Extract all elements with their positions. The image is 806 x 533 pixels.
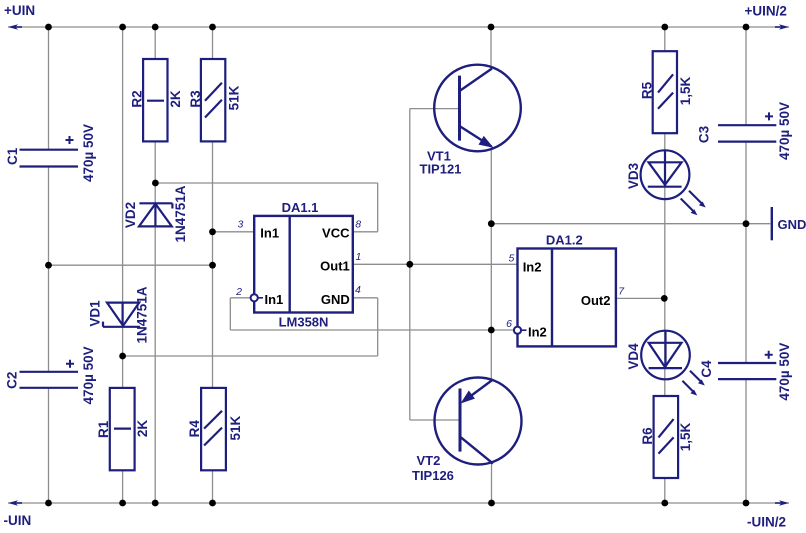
wire VT1 collector stub (490, 27, 492, 67)
junction top rail R5 (661, 24, 668, 31)
svg-text:1,5K: 1,5K (678, 76, 693, 105)
svg-text:+UIN/2: +UIN/2 (745, 4, 787, 19)
junction emitters GND wire (488, 220, 495, 227)
svg-text:470µ 50V: 470µ 50V (777, 343, 792, 401)
svg-text:R5: R5 (640, 81, 655, 99)
wire VT1 base (410, 108, 460, 110)
wire VD1/R1 column (122, 27, 124, 503)
junction bottom rail VT2 collector (488, 500, 495, 507)
svg-text:TIP121: TIP121 (420, 161, 462, 176)
svg-text:VD2: VD2 (123, 202, 138, 228)
svg-text:C1: C1 (5, 147, 20, 165)
svg-text:2K: 2K (168, 90, 183, 108)
svg-text:R3: R3 (188, 90, 203, 108)
svg-text:DA1.1: DA1.1 (282, 200, 319, 215)
junction Out1 bases (406, 261, 413, 268)
svg-text:4: 4 (355, 284, 361, 296)
op-amp DA1.1 (251, 200, 353, 330)
svg-text:470µ 50V: 470µ 50V (777, 102, 792, 160)
pin number 6 (506, 318, 512, 330)
wire VD2 node to VCC horizontal (155, 182, 378, 184)
svg-text:+UIN: +UIN (4, 3, 35, 18)
wire GND pin4 to VD1 node (123, 355, 378, 357)
wire In1 inverting drop (229, 298, 231, 330)
svg-text:LM358N: LM358N (279, 315, 329, 330)
wire emitters column (490, 150, 492, 379)
wire pin3 stub (213, 231, 255, 233)
transistor VT1 (420, 65, 521, 177)
svg-text:6: 6 (506, 318, 512, 330)
pin number 4 (355, 284, 361, 296)
svg-text:-UIN: -UIN (4, 513, 32, 528)
svg-text:51K: 51K (228, 415, 243, 440)
pin number 1 (356, 251, 362, 263)
svg-text:5: 5 (508, 253, 514, 265)
wire R3/R4 column (212, 27, 214, 503)
junction top rail right column (743, 24, 750, 31)
node -UIN label (4, 513, 32, 528)
svg-text:1: 1 (356, 251, 362, 263)
resistor R6 (640, 396, 693, 478)
pin number 7 (618, 285, 625, 297)
wire feedback to In2 pin6 (230, 329, 514, 331)
node +UIN label (4, 3, 35, 18)
junction C1 C2 midpoint (45, 262, 52, 269)
LED VD4 (626, 331, 705, 396)
terminal arrow -UIN/2 (775, 500, 789, 505)
junction bottom rail R1 (119, 500, 126, 507)
svg-text:In1: In1 (265, 292, 284, 307)
junction bottom rail VD2 anode (152, 500, 159, 507)
svg-text:1,5K: 1,5K (678, 422, 693, 451)
junction top rail C1 (45, 24, 52, 31)
wire GND pin4 stub (353, 297, 378, 299)
wire right column above C3 (745, 27, 747, 125)
zener diode VD1 (88, 286, 150, 343)
junction bottom rail R6 (661, 500, 668, 507)
capacitor C3 (697, 102, 793, 160)
svg-text:R4: R4 (187, 420, 202, 438)
svg-text:VD4: VD4 (626, 343, 641, 370)
wire left column below C2 (48, 388, 50, 503)
junction pin3 node (209, 228, 216, 235)
svg-text:470µ 50V: 470µ 50V (81, 124, 96, 182)
junction top rail R2 (152, 24, 159, 31)
wire GND output horizontal (491, 223, 770, 225)
terminal arrow +UIN (8, 24, 22, 29)
svg-text:8: 8 (355, 218, 361, 230)
junction top rail VD1 (119, 24, 126, 31)
wire right column below C4 (745, 379, 747, 503)
wire VT2 collector stub (491, 463, 493, 503)
wire Out2 stub (616, 297, 664, 299)
svg-text:VD3: VD3 (626, 162, 641, 189)
junction VD1 R1 GND node (119, 353, 126, 360)
pin number 8 (355, 218, 361, 230)
svg-text:C3: C3 (697, 125, 712, 143)
node +UIN/2 label (745, 4, 787, 19)
svg-text:Out2: Out2 (581, 293, 611, 308)
wire +UIN top rail (8, 26, 789, 28)
resistor R4 (187, 388, 243, 470)
junction VD2 VCC node (152, 180, 159, 187)
transistor VT2 (412, 378, 522, 483)
svg-text:R2: R2 (129, 90, 144, 107)
svg-text:In1: In1 (260, 225, 279, 240)
wire left column C1/C2 upper segment (48, 27, 50, 150)
terminal arrow -UIN (8, 500, 22, 505)
wire right column C3 to C4 (745, 142, 747, 363)
resistor R2 (129, 59, 183, 141)
svg-text:In2: In2 (523, 259, 542, 274)
svg-text:470µ 50V: 470µ 50V (81, 346, 96, 404)
junction emitters feedback (488, 327, 495, 334)
svg-text:GND: GND (321, 292, 350, 307)
svg-text:2: 2 (235, 286, 242, 298)
wire Out1 to In2 pin5 (353, 263, 518, 265)
wire R2/VD2 column (154, 27, 156, 503)
wire left column between C1 and C2 (48, 167, 50, 372)
wire GND pin4 drop (377, 298, 379, 356)
wire bases vertical (409, 109, 411, 420)
svg-text:2K: 2K (135, 420, 150, 438)
zener diode VD2 (123, 185, 188, 242)
junction bottom rail C2 (45, 500, 52, 507)
junction reference to R3 R4 (209, 262, 216, 269)
wire In1 inverting stub (230, 297, 250, 299)
pin number 2 (235, 286, 242, 298)
pin number 5 (508, 253, 514, 265)
op-amp DA1.2 (514, 233, 616, 347)
svg-text:C4: C4 (699, 360, 714, 378)
wire midpoint reference horizontal (49, 264, 213, 266)
junction top rail VT1 collector (488, 24, 495, 31)
capacitor C2 (5, 346, 97, 404)
svg-text:In2: In2 (528, 325, 547, 340)
junction bottom rail right column (743, 500, 750, 507)
wire -UIN bottom rail (8, 502, 789, 504)
node -UIN/2 label (747, 515, 786, 530)
svg-text:-UIN/2: -UIN/2 (747, 515, 786, 530)
resistor R3 (188, 59, 242, 141)
svg-text:R1: R1 (96, 420, 111, 438)
wire VT2 base (410, 419, 460, 421)
junction Out2 LED column (661, 295, 668, 302)
svg-text:GND: GND (778, 217, 806, 232)
capacitor C1 (5, 124, 96, 182)
wire VCC vertical riser (377, 183, 379, 232)
capacitor C4 (699, 343, 792, 401)
svg-text:R6: R6 (640, 427, 655, 445)
svg-text:TIP126: TIP126 (412, 468, 454, 483)
LED VD3 (626, 150, 706, 215)
junction top rail R3 (209, 24, 216, 31)
svg-text:VD1: VD1 (88, 300, 103, 327)
svg-text:1N4751A: 1N4751A (135, 286, 150, 343)
terminal arrow +UIN/2 (775, 24, 789, 29)
pin number 3 (237, 218, 243, 230)
svg-text:1N4751A: 1N4751A (173, 185, 188, 242)
svg-text:DA1.2: DA1.2 (546, 233, 583, 248)
wire VCC pin8 stub (353, 231, 378, 233)
resistor R1 (96, 388, 150, 470)
svg-text:C2: C2 (5, 372, 20, 389)
svg-text:51K: 51K (227, 85, 242, 110)
svg-text:Out1: Out1 (320, 258, 350, 273)
ground terminal GND (772, 207, 806, 240)
junction GND right column (743, 220, 750, 227)
junction bottom rail R4 (209, 500, 216, 507)
resistor R5 (640, 51, 693, 133)
wire R5/LED column (664, 27, 666, 503)
svg-text:VT2: VT2 (417, 453, 441, 468)
svg-text:VCC: VCC (322, 225, 350, 240)
svg-text:3: 3 (237, 218, 243, 230)
